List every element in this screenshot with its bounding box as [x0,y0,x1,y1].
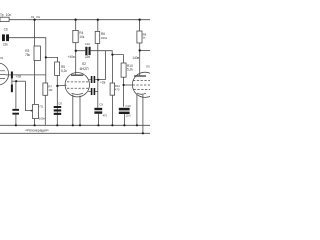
svg-text:С9: С9 [99,103,103,107]
svg-text:470: 470 [115,87,120,91]
svg-text:+40в: +40в [68,55,75,59]
svg-text:С6: С6 [4,27,8,31]
svg-text:22к: 22к [3,43,9,47]
svg-text:6Н2П: 6Н2П [80,67,89,71]
svg-text:«Регенерация»: «Регенерация» [25,128,49,132]
svg-text:10к: 10к [6,13,12,17]
svg-text:+2в: +2в [100,81,106,85]
svg-text:470: 470 [103,114,108,118]
svg-text:С8: С8 [58,102,62,106]
svg-text:10,0: 10,0 [126,114,132,118]
svg-text:П1: П1 [40,104,44,108]
svg-text:5,2к: 5,2к [61,69,67,73]
svg-text:+2в: +2в [16,74,22,78]
svg-text:1М: 1М [48,88,53,92]
svg-text:С10: С10 [126,104,132,108]
svg-text:С10: С10 [85,42,91,46]
svg-text:Л1: Л1 [0,56,4,60]
svg-text:Тр: Тр [0,13,4,17]
svg-text:140в: 140в [132,56,139,60]
svg-text:100к: 100к [39,117,46,121]
svg-text:75к: 75к [25,53,31,57]
svg-text:Л3: Л3 [146,64,150,68]
svg-text:5,2к: 5,2к [127,68,133,72]
svg-text:220к: 220к [101,36,108,40]
svg-text:Л2: Л2 [82,62,86,66]
svg-text:10к: 10к [79,35,85,39]
svg-text:22н: 22н [85,55,91,59]
